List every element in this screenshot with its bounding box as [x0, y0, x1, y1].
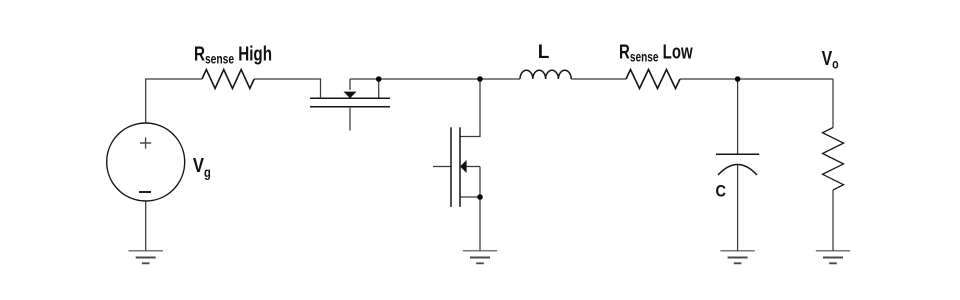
- svg-text:L: L: [538, 42, 550, 63]
- svg-text:Vg: Vg: [193, 153, 211, 180]
- svg-text:Rsense Low: Rsense Low: [619, 40, 693, 64]
- svg-text:Vo: Vo: [822, 47, 839, 72]
- svg-text:C: C: [716, 183, 726, 201]
- svg-text:Rsense High: Rsense High: [194, 42, 272, 66]
